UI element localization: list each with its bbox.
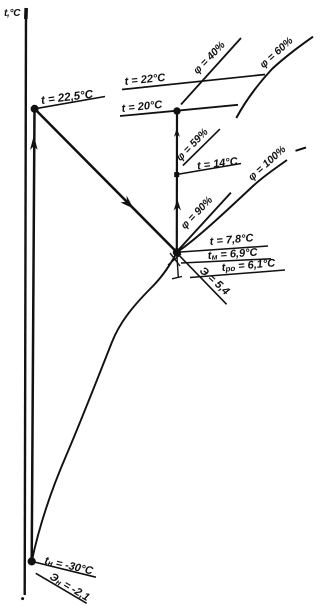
svg-text:t = 14°C: t = 14°C xyxy=(196,155,239,172)
svg-text:t,°C: t,°C xyxy=(4,8,21,19)
svg-text:t = 7,8°C: t = 7,8°C xyxy=(209,232,255,248)
svg-text:φ = 59%: φ = 59% xyxy=(174,126,211,164)
svg-text:t = 22,5°C: t = 22,5°C xyxy=(40,89,94,107)
